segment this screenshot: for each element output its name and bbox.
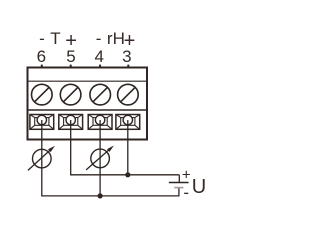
svg-text:+: + (65, 30, 77, 52)
svg-text:-: - (39, 29, 45, 48)
svg-text:T: T (50, 29, 60, 48)
svg-text:rH: rH (107, 29, 125, 48)
svg-text:-: - (96, 29, 102, 48)
svg-text:6: 6 (37, 47, 46, 66)
svg-text:-: - (183, 183, 189, 202)
svg-text:+: + (124, 30, 136, 52)
svg-text:+: + (182, 166, 191, 183)
svg-text:4: 4 (94, 47, 103, 66)
svg-text:U: U (192, 176, 206, 198)
